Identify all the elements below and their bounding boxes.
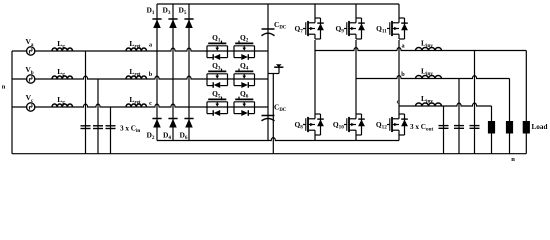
capacitor CDC top	[262, 28, 275, 30]
wire neutral bottom rail	[12, 153, 526, 155]
transistor Q2	[233, 46, 235, 51]
transistor Q9	[344, 28, 347, 30]
diode D4	[168, 118, 177, 120]
svg-text:b: b	[149, 71, 153, 78]
wire input cap column c	[110, 107, 112, 154]
svg-text:c: c	[149, 100, 152, 107]
svg-text:CDC: CDC	[274, 102, 287, 113]
wire rectifier column 2 (D3/D4)	[172, 4, 174, 141]
inductor Linv phase a	[416, 48, 442, 51]
svg-text:n: n	[511, 156, 515, 163]
transistor Q10	[344, 124, 347, 126]
source Vc	[27, 103, 35, 111]
svg-text:Lret: Lret	[129, 95, 141, 106]
transistor Q7	[303, 28, 306, 30]
svg-text:Vc: Vc	[26, 93, 34, 104]
wire output cap column from line a	[474, 51, 476, 154]
capacitor input filter b	[93, 125, 103, 127]
inductor Lg phase b	[52, 76, 73, 79]
transistor Q3	[206, 74, 208, 79]
wire output line a with hops, bends down to load 3	[315, 48, 526, 51]
wire midpoint link stub	[268, 73, 279, 75]
capacitor input filter a	[81, 125, 91, 127]
wire output cap column from line b	[458, 79, 460, 154]
svg-text:c: c	[397, 99, 400, 106]
svg-text:Q2: Q2	[240, 33, 249, 44]
svg-text:Lret: Lret	[129, 39, 141, 50]
svg-text:3 x Cout: 3 x Cout	[410, 123, 433, 133]
midpoint marker triangle	[274, 66, 283, 68]
wire inverter leg 1 vertical	[314, 40, 316, 114]
diode D1	[152, 18, 161, 20]
transistor Q4	[233, 74, 235, 79]
svg-text:D5: D5	[178, 6, 186, 17]
transistor Q1	[206, 46, 208, 51]
capacitor input filter c	[106, 125, 116, 127]
transistor Q8	[303, 124, 306, 126]
svg-text:Q11: Q11	[376, 24, 387, 35]
wire negative DC rail with hop over midpoint link	[157, 138, 399, 141]
svg-text:Q12: Q12	[376, 120, 387, 131]
source Vb	[27, 75, 35, 83]
wire phase a input line with hops over D3 D5 columns	[12, 48, 268, 51]
svg-text:Q9: Q9	[335, 24, 344, 35]
inductor Lg phase a	[52, 48, 73, 51]
inductor Lg phase c	[52, 104, 73, 107]
svg-text:b: b	[401, 71, 405, 78]
wire phase b input line with hops	[12, 76, 268, 79]
load resistor 2	[506, 121, 513, 134]
capacitor output filter 1	[439, 125, 449, 127]
wire load 1 bottom stub	[491, 134, 493, 154]
svg-text:a: a	[149, 42, 152, 49]
wire top DC rail	[157, 3, 399, 5]
inductor Lret phase a	[126, 48, 147, 51]
wire load 3 bottom stub	[525, 134, 527, 154]
svg-text:n: n	[2, 84, 6, 91]
wire phase c input line with hops	[12, 104, 268, 107]
capacitor output filter 2	[454, 125, 464, 127]
capacitor output filter 3	[470, 125, 480, 127]
transistor Q6	[233, 102, 235, 107]
svg-text:D6: D6	[179, 131, 187, 142]
diode D3	[168, 18, 177, 20]
svg-text:Load: Load	[532, 123, 548, 131]
svg-text:D1: D1	[146, 6, 154, 17]
inductor Lret phase c	[126, 104, 147, 107]
svg-text:Q1: Q1	[212, 33, 221, 44]
transistor Q12	[387, 124, 390, 126]
wire input cap column b	[97, 79, 99, 154]
wire midpoint link vertical	[272, 74, 274, 154]
svg-text:3 x Cin: 3 x Cin	[120, 124, 140, 134]
svg-text:CDC: CDC	[274, 20, 287, 31]
wire DC-link column	[267, 4, 269, 141]
svg-text:Q5: Q5	[212, 89, 221, 100]
wire load 2 bottom stub	[509, 134, 511, 154]
wire rectifier column 3 (D5/D6)	[188, 4, 190, 141]
source Va	[27, 47, 35, 55]
inductor Linv phase c	[416, 103, 442, 106]
svg-text:Q6: Q6	[240, 89, 249, 100]
svg-text:Q7: Q7	[294, 24, 303, 35]
wire input cap column a	[85, 51, 87, 154]
diode D6	[184, 118, 193, 120]
diode D5	[184, 18, 193, 20]
capacitor CDC bottom	[262, 115, 275, 117]
svg-text:Q10: Q10	[333, 120, 344, 131]
svg-text:Va: Va	[25, 37, 33, 48]
transistor Q11	[387, 28, 390, 30]
diode D2	[152, 118, 161, 120]
svg-text:Q3: Q3	[212, 61, 221, 72]
svg-text:Q4: Q4	[240, 61, 249, 72]
wire output cap column from line c	[443, 106, 445, 154]
svg-text:Vb: Vb	[25, 65, 33, 76]
inductor Linv phase b	[416, 76, 442, 79]
wire rectifier column 1 (D1/D2)	[156, 4, 158, 141]
wire output line c with hops, bends down to load 1	[399, 103, 492, 106]
wire left neutral vertical	[11, 51, 13, 154]
wire inverter leg 2 vertical	[355, 40, 357, 114]
svg-text:D2: D2	[146, 131, 154, 142]
svg-text:Q8: Q8	[294, 120, 303, 131]
svg-text:Lret: Lret	[129, 67, 141, 78]
load resistor 3	[523, 121, 530, 134]
load resistor 1	[488, 121, 495, 134]
inductor Lret phase b	[126, 76, 147, 79]
wire inverter leg 3 vertical	[398, 40, 400, 114]
svg-text:D3: D3	[162, 6, 170, 17]
wire output line b with hops, bends down to load 2	[356, 76, 510, 79]
transistor Q5	[206, 102, 208, 107]
svg-text:D4: D4	[163, 131, 171, 142]
svg-text:a: a	[401, 43, 404, 50]
